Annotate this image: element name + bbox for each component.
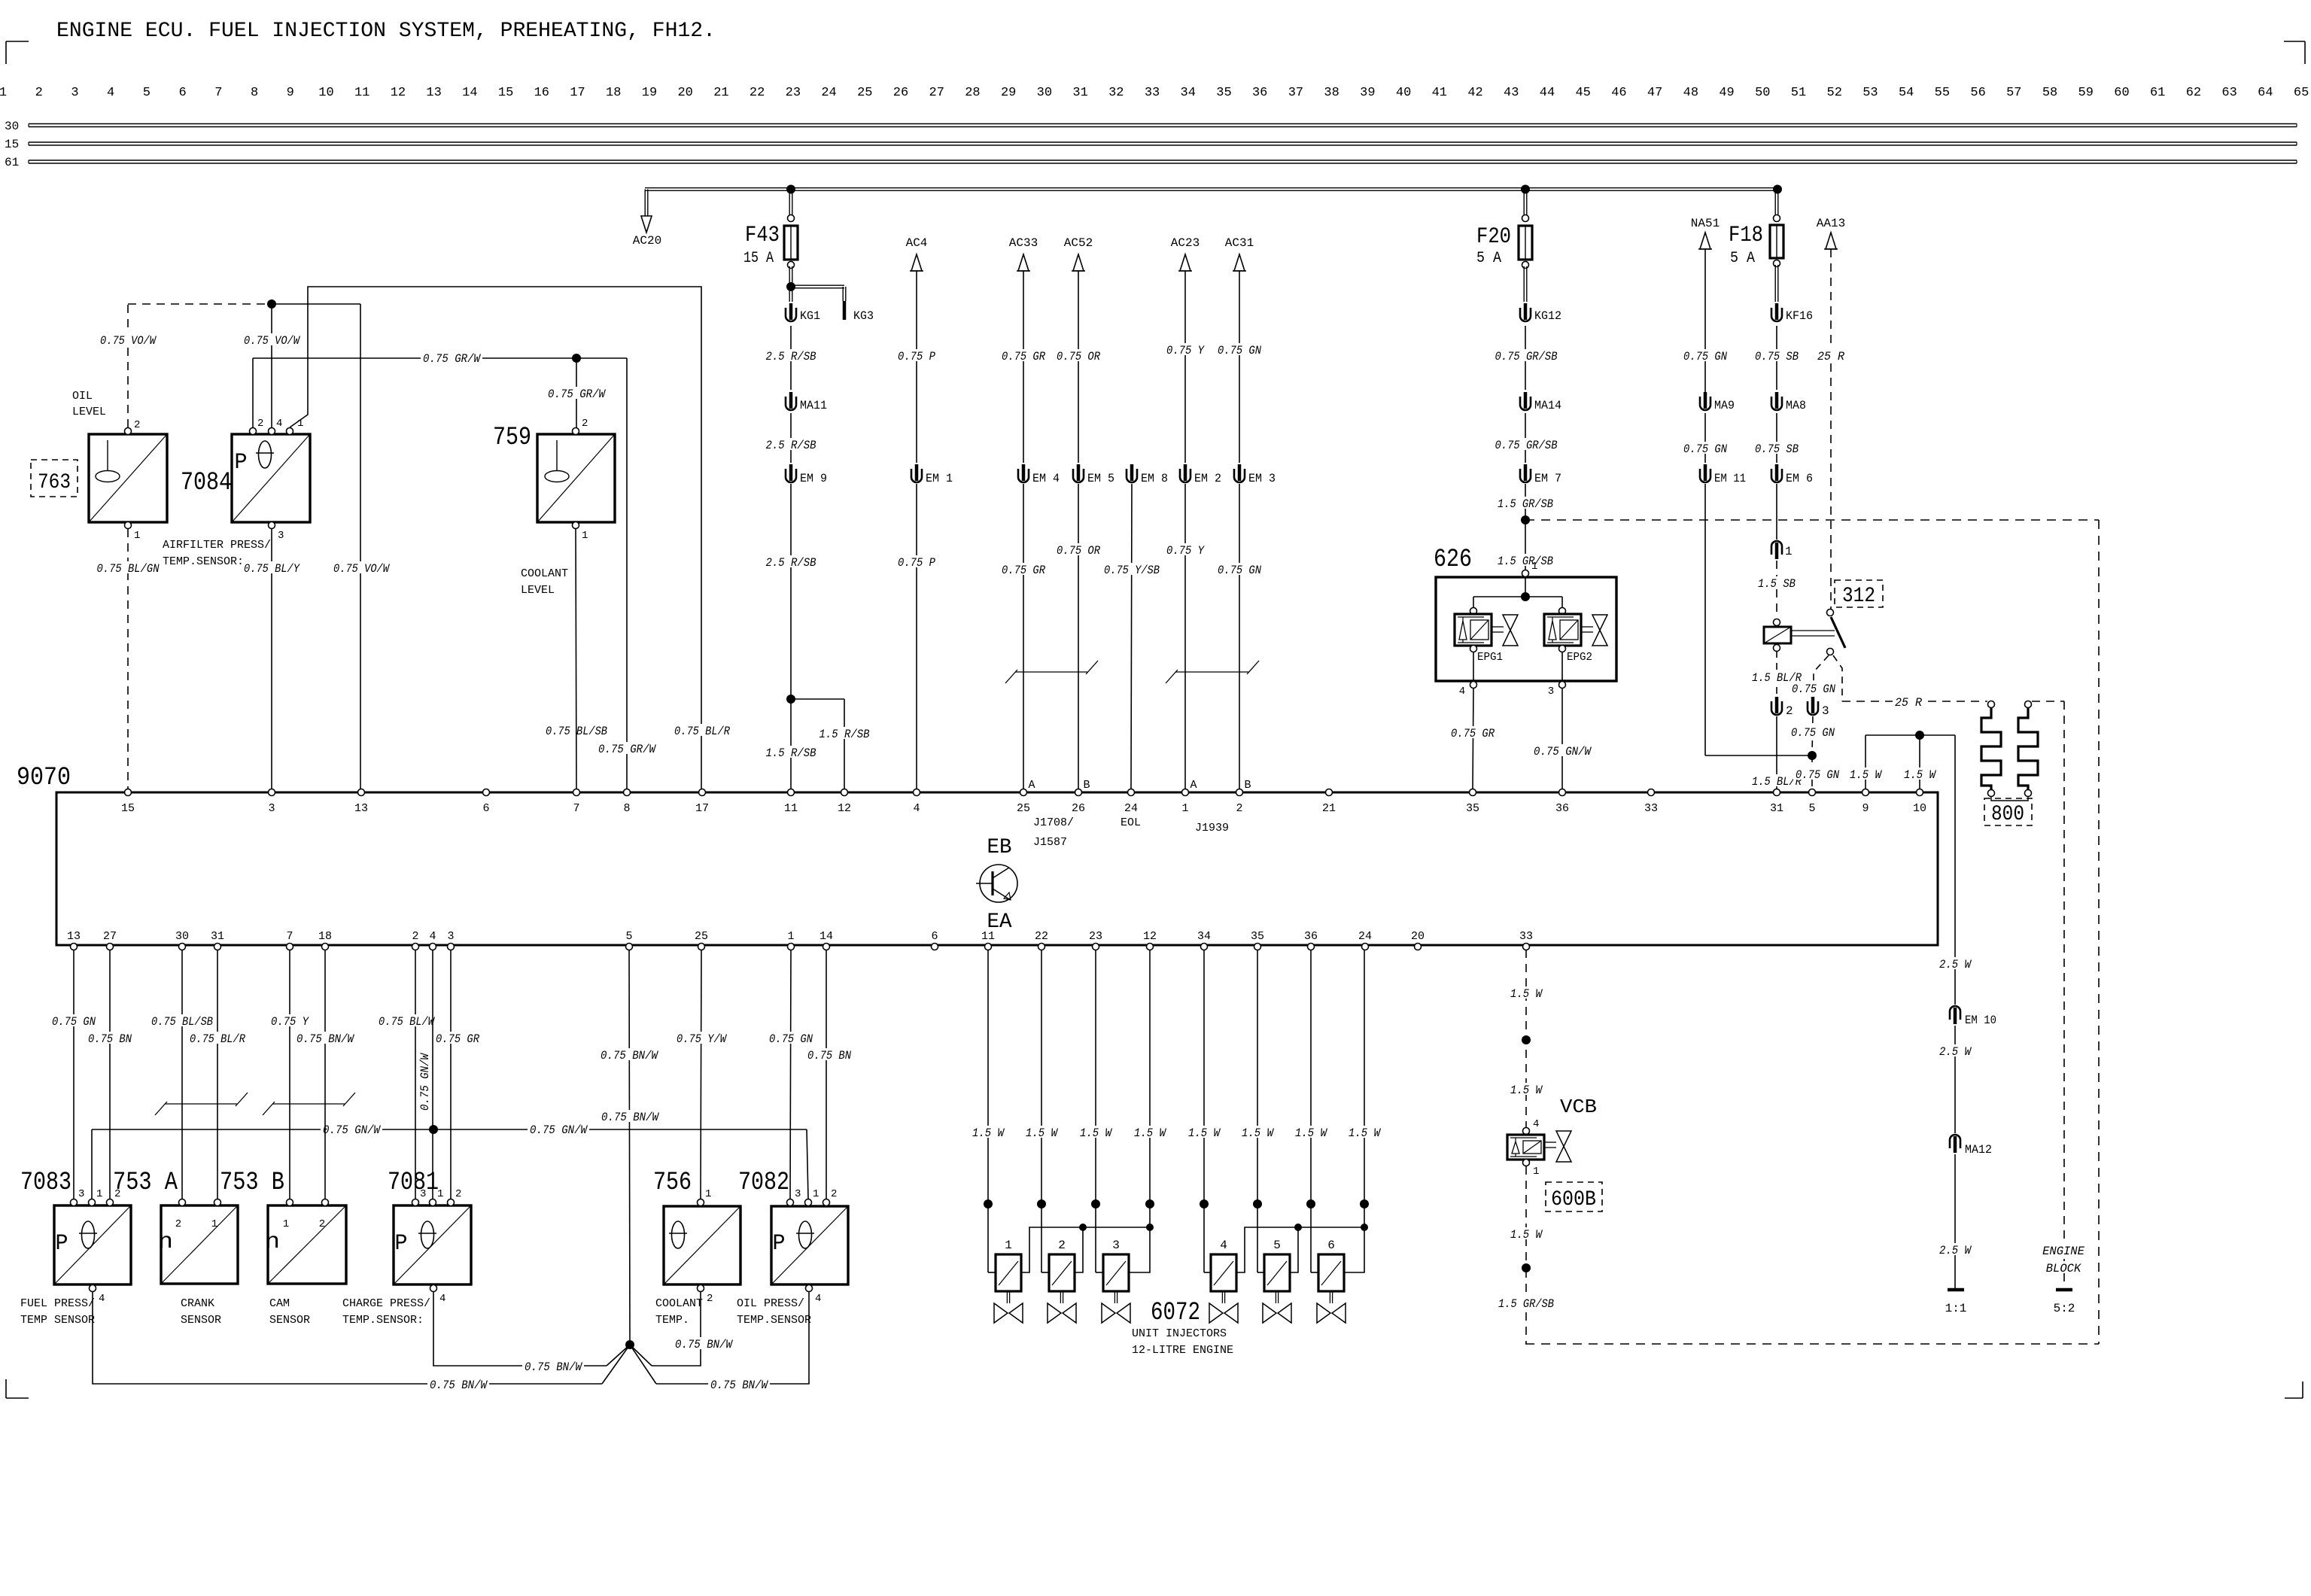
svg-text:SENSOR: SENSOR — [269, 1314, 310, 1327]
svg-text:41: 41 — [1432, 86, 1447, 100]
wire 626 pin3 to pin36 0.75 GN/W — [1561, 688, 1563, 789]
sensor 759 coolant level — [537, 434, 615, 522]
svg-text:753 A: 753 A — [113, 1169, 178, 1197]
node pin5 junction — [1808, 751, 1817, 760]
svg-text:SENSOR: SENSOR — [181, 1314, 221, 1327]
wire pin30 to 753A pin2 0.75 BL/SB — [181, 950, 183, 1199]
wire switch to 25R — [1833, 655, 1842, 701]
connector MA9 — [1700, 392, 1735, 412]
label 0.75 GN — [1681, 442, 1729, 456]
wire connector3 to pin5 0.75 GN — [1812, 716, 1813, 754]
fuse F18 — [1729, 215, 1783, 268]
svg-text:23: 23 — [786, 86, 801, 100]
svg-text:7081: 7081 — [388, 1169, 439, 1197]
svg-text:0.75 GN: 0.75 GN — [1683, 350, 1728, 363]
svg-text:2.5 W: 2.5 W — [1939, 958, 1972, 971]
svg-text:12: 12 — [838, 802, 851, 815]
wire AC31 to EM3 0.75 GN — [1239, 271, 1240, 463]
svg-text:3: 3 — [795, 1188, 801, 1200]
injector 2 — [1048, 1239, 1076, 1323]
svg-text:49: 49 — [1719, 86, 1734, 100]
pin 1 of 763 — [125, 522, 141, 543]
node VO/W — [267, 299, 276, 309]
wire inj6 return — [1345, 1204, 1364, 1272]
wire pin33 to VCB 1.5 W — [1525, 950, 1527, 1128]
label 1.5 W — [1508, 1227, 1544, 1242]
svg-text:0.75 BN/W: 0.75 BN/W — [296, 1032, 355, 1046]
svg-text:1: 1 — [211, 1218, 217, 1230]
svg-text:3: 3 — [78, 1188, 84, 1200]
bus 61 label — [5, 156, 19, 169]
label 1.5 BL/R — [1750, 670, 1804, 685]
label 0.75 OR — [1054, 543, 1102, 558]
wire inj2 feed — [1041, 1204, 1049, 1272]
wire inj2 return — [1075, 1227, 1083, 1272]
ruler numbers 1-65 — [0, 86, 2309, 100]
label AIRFILTER PRESS/TEMP.SENSOR: — [163, 539, 271, 568]
svg-text:13: 13 — [354, 802, 368, 815]
svg-text:4: 4 — [913, 802, 920, 815]
svg-text:J1587: J1587 — [1033, 836, 1067, 849]
label box 763 — [31, 460, 78, 497]
label A (J1708) — [1028, 779, 1035, 792]
svg-text:57: 57 — [2006, 86, 2021, 100]
svg-text:OIL PRESS/: OIL PRESS/ — [737, 1297, 804, 1310]
svg-text:0.75 GR: 0.75 GR — [436, 1032, 480, 1046]
svg-text:60: 60 — [2114, 86, 2129, 100]
svg-text:KG3: KG3 — [853, 309, 874, 323]
wire 1.5 SB to relay coil — [1776, 561, 1777, 616]
svg-text:28: 28 — [965, 86, 980, 100]
wire branch to KG3 — [791, 285, 846, 301]
svg-text:24: 24 — [1358, 930, 1372, 943]
svg-text:3: 3 — [447, 930, 454, 943]
label 0.75 BN — [805, 1048, 853, 1062]
svg-text:4: 4 — [107, 86, 114, 100]
label 0.75 GR/SB — [1493, 438, 1560, 452]
label 0.75 GN — [1789, 725, 1837, 740]
svg-text:1.5 GR/SB: 1.5 GR/SB — [1498, 497, 1553, 511]
wire pin7 to 753B pin1 0.75 Y — [289, 950, 290, 1199]
svg-text:1: 1 — [437, 1188, 443, 1200]
svg-text:31: 31 — [211, 930, 224, 943]
svg-text:3: 3 — [1822, 704, 1829, 718]
label 0.75 GN — [1790, 682, 1838, 696]
wire switch to connector 3 0.75 GN — [1814, 655, 1829, 694]
wire inj5 return — [1291, 1227, 1298, 1272]
6072 label — [1151, 1299, 1200, 1327]
svg-text:8: 8 — [623, 802, 630, 815]
svg-text:3: 3 — [1112, 1239, 1120, 1252]
label 0.75 BN/W — [708, 1378, 770, 1392]
wire EM1 to pin4 0.75 P — [916, 484, 917, 789]
label 0.75 SB — [1753, 349, 1801, 363]
svg-text:COOLANT: COOLANT — [655, 1297, 703, 1310]
pin 2 of 759 — [573, 418, 588, 435]
svg-text:AC31: AC31 — [1225, 236, 1254, 250]
connector EM 2 — [1180, 464, 1221, 485]
corner mark bottom-left — [6, 1379, 29, 1398]
connector EM 9 — [786, 464, 827, 485]
sensor 7081 charge press/temp — [394, 1205, 471, 1284]
ECU bottom pins — [67, 930, 1533, 950]
svg-text:46: 46 — [1611, 86, 1626, 100]
svg-text:53: 53 — [1862, 86, 1878, 100]
wire MA11 to EM9 2.5 R/SB — [790, 413, 792, 463]
label OIL LEVEL — [72, 390, 106, 418]
svg-text:9: 9 — [287, 86, 294, 100]
wire EM10 to MA12 2.5 W — [1954, 1026, 1956, 1133]
svg-text:EM 11: EM 11 — [1714, 472, 1746, 485]
svg-text:0.75 BL/R: 0.75 BL/R — [190, 1032, 246, 1046]
label VCB — [1560, 1096, 1597, 1118]
wire EM2 to pin1 0.75 Y — [1184, 484, 1186, 789]
svg-text:0.75 SB: 0.75 SB — [1755, 350, 1799, 363]
svg-text:22: 22 — [1035, 930, 1048, 943]
759 label — [493, 424, 531, 452]
svg-text:J1939: J1939 — [1195, 822, 1229, 834]
label 1.5 W — [1902, 768, 1938, 782]
bus 61 — [29, 160, 2297, 163]
feed wire (battery) — [645, 188, 1778, 191]
wire coil to connector 2 1.5 BL/R — [1776, 651, 1777, 695]
label B (J1939) — [1244, 779, 1251, 792]
label FUEL PRESS/TEMP SENSOR — [20, 1297, 95, 1327]
label 0.75 GR/W — [546, 387, 607, 401]
label 0.75 BN/W — [598, 1048, 660, 1062]
bus 30 — [29, 124, 2297, 127]
svg-text:61: 61 — [5, 156, 19, 169]
svg-text:n: n — [265, 1230, 280, 1255]
wire F18 to KF16 — [1775, 265, 1778, 302]
pin 1 of 759 — [573, 522, 588, 543]
svg-text:0.75 Y: 0.75 Y — [1166, 544, 1206, 558]
dashed boundary bottom — [1525, 1343, 2099, 1345]
wire F43 to KG1 node — [789, 266, 792, 284]
svg-text:7083: 7083 — [20, 1169, 71, 1197]
svg-text:0.75 VO/W: 0.75 VO/W — [244, 334, 300, 348]
svg-text:7082: 7082 — [738, 1169, 789, 1197]
svg-text:0.75 VO/W: 0.75 VO/W — [333, 562, 390, 576]
label 0.75 GR — [999, 349, 1048, 363]
node branch R/SB — [786, 695, 795, 704]
wire feed to F18 — [1775, 190, 1778, 223]
wire 7083 pin4 to star — [93, 1292, 630, 1384]
svg-text:45: 45 — [1575, 86, 1590, 100]
svg-text:2.5 W: 2.5 W — [1939, 1244, 1972, 1257]
svg-text:1.5 W: 1.5 W — [972, 1126, 1005, 1140]
label 0.75 SB — [1753, 442, 1801, 456]
7083 label — [20, 1169, 71, 1197]
svg-text:25 R: 25 R — [1895, 696, 1923, 710]
label UNIT INJECTORS 12-LITRE ENGINE — [1132, 1327, 1233, 1357]
svg-text:0.75 GN: 0.75 GN — [1796, 768, 1840, 782]
svg-text:F20: F20 — [1476, 224, 1511, 250]
svg-text:7: 7 — [573, 802, 579, 815]
svg-text:0.75 GR: 0.75 GR — [1451, 727, 1495, 740]
label J1939 — [1195, 822, 1229, 834]
label 0.75 GR — [999, 563, 1048, 577]
svg-text:1.5 SB: 1.5 SB — [1758, 577, 1796, 591]
pin 4 of 7081 — [430, 1285, 446, 1306]
svg-text:7: 7 — [286, 930, 293, 943]
svg-text:1.5 W: 1.5 W — [1188, 1126, 1221, 1140]
svg-text:UNIT INJECTORS: UNIT INJECTORS — [1132, 1327, 1227, 1340]
node dashed-boundary — [1521, 515, 1530, 524]
svg-text:ENGINE ECU. FUEL INJECTION SYS: ENGINE ECU. FUEL INJECTION SYSTEM, PREHE… — [56, 20, 716, 43]
relay 312 coil — [1764, 619, 1791, 652]
7084 label — [181, 469, 232, 497]
svg-text:AC20: AC20 — [633, 234, 661, 248]
svg-text:54: 54 — [1899, 86, 1914, 100]
svg-text:4: 4 — [276, 418, 282, 430]
wire EPG1 to pin4 — [1473, 652, 1474, 681]
connector EM 4 — [1018, 464, 1060, 485]
wire F20 to KG12 — [1524, 266, 1527, 302]
svg-text:5:2: 5:2 — [2054, 1302, 2075, 1315]
svg-text:0.75 BN/W: 0.75 BN/W — [601, 1111, 660, 1124]
injector 3 — [1102, 1239, 1130, 1323]
svg-text:2.5 R/SB: 2.5 R/SB — [766, 439, 816, 452]
svg-text:4: 4 — [429, 930, 436, 943]
ECU 9070 box — [56, 792, 1938, 945]
wire pin18 to 753B pin2 0.75 BN/W — [324, 950, 326, 1199]
svg-text:9: 9 — [1862, 802, 1869, 815]
svg-text:MA8: MA8 — [1786, 399, 1806, 412]
wire node to pin5 — [1811, 755, 1813, 789]
svg-text:6: 6 — [1327, 1239, 1335, 1252]
connector MA12 — [1950, 1135, 1992, 1157]
svg-text:31: 31 — [1072, 86, 1087, 100]
svg-text:26: 26 — [893, 86, 908, 100]
svg-text:2: 2 — [1236, 802, 1242, 815]
svg-text:34: 34 — [1181, 86, 1196, 100]
pin 1 of 756 — [698, 1188, 712, 1206]
svg-text:756: 756 — [653, 1169, 692, 1197]
pin 2 of 7084 — [250, 418, 264, 435]
fuse F20 — [1476, 215, 1532, 269]
svg-text:EPG2: EPG2 — [1567, 651, 1592, 664]
svg-text:12: 12 — [1143, 930, 1157, 943]
label 1.5 GR/SB — [1495, 497, 1555, 511]
wire 7081 pin4 to star — [433, 1292, 630, 1366]
node below F43 — [786, 282, 795, 291]
svg-text:1.5 W: 1.5 W — [1349, 1126, 1382, 1140]
svg-text:J1708/: J1708/ — [1033, 816, 1074, 829]
svg-text:20: 20 — [677, 86, 692, 100]
7081 label — [388, 1169, 439, 1197]
wire branch to pin12 — [791, 699, 844, 789]
svg-text:0.75 BL/Y: 0.75 BL/Y — [244, 562, 300, 576]
wire pin3 to 7081 pin2 0.75 GR — [450, 950, 452, 1199]
svg-text:2.5 W: 2.5 W — [1939, 1045, 1972, 1059]
svg-text:21: 21 — [713, 86, 728, 100]
label 0.75 P — [896, 349, 938, 363]
svg-text:1.5 W: 1.5 W — [1242, 1126, 1275, 1140]
label ENGINE BLOCK — [2040, 1244, 2087, 1275]
svg-text:0.75 GN/W: 0.75 GN/W — [1534, 745, 1592, 758]
svg-text:1.5 W: 1.5 W — [1510, 987, 1543, 1001]
svg-text:1: 1 — [96, 1188, 102, 1200]
label 1.5 SB — [1756, 576, 1798, 591]
wire 7084 pin3 to pin3 — [271, 529, 272, 789]
svg-text:2.5 R/SB: 2.5 R/SB — [766, 556, 816, 570]
svg-text:11: 11 — [354, 86, 369, 100]
svg-text:2: 2 — [831, 1188, 837, 1200]
svg-text:TEMP.SENSOR:: TEMP.SENSOR: — [163, 555, 244, 568]
svg-text:0.75 BN/W: 0.75 BN/W — [430, 1379, 488, 1392]
svg-text:0.75 BN/W: 0.75 BN/W — [525, 1360, 583, 1374]
pin 2 of 753B — [319, 1199, 329, 1231]
label 2.5 W — [1937, 957, 1973, 971]
transistor EB/EA — [976, 836, 1017, 934]
svg-text:4: 4 — [1459, 686, 1465, 698]
label 0.75 Y/W — [674, 1032, 728, 1046]
svg-text:3: 3 — [268, 802, 275, 815]
626 label — [1434, 546, 1472, 574]
svg-text:0.75 GR/SB: 0.75 GR/SB — [1495, 350, 1558, 363]
wire 763 pin2 dashed up — [128, 304, 267, 427]
wire KG12 to MA14 0.75 GR/SB — [1525, 326, 1526, 390]
svg-text:19: 19 — [642, 86, 657, 100]
wire MA9 to EM11 0.75 GN — [1704, 413, 1706, 463]
svg-text:0.75 GR/SB: 0.75 GR/SB — [1495, 439, 1558, 452]
ground 1:1 — [1945, 1290, 1967, 1315]
svg-text:17: 17 — [695, 802, 709, 815]
svg-text:EM 1: EM 1 — [926, 472, 953, 485]
wire 25 R dashed to glow plug — [1842, 701, 1987, 702]
connector MA14 — [1520, 392, 1561, 412]
label 0.75 BL/GN — [95, 561, 162, 576]
bus 15 label — [5, 138, 19, 151]
node 626 internal — [1521, 592, 1530, 601]
label CRANK SENSOR — [181, 1297, 221, 1327]
wire VO/W node to pin13 — [272, 304, 360, 789]
wire EM4 to pin25 0.75 GR — [1023, 484, 1024, 789]
svg-text:0.75 Y: 0.75 Y — [1166, 344, 1206, 357]
svg-text:0.75 P: 0.75 P — [898, 556, 936, 570]
svg-text:15 A: 15 A — [743, 250, 774, 267]
label 0.75 GR — [433, 1032, 482, 1046]
label 25 R — [1893, 695, 1924, 710]
svg-text:2: 2 — [319, 1218, 325, 1230]
svg-text:32: 32 — [1108, 86, 1124, 100]
wire NA51 to MA9 0.75 GN — [1704, 249, 1706, 392]
svg-text:B: B — [1244, 779, 1251, 792]
injector 4 — [1209, 1239, 1238, 1323]
label 2.5 W — [1937, 1243, 1973, 1257]
svg-text:4: 4 — [1533, 1118, 1539, 1130]
svg-text:0.75 OR: 0.75 OR — [1057, 544, 1101, 558]
svg-text:29: 29 — [1001, 86, 1016, 100]
label 0.75 Y — [1164, 343, 1206, 357]
svg-text:0.75 GR/W: 0.75 GR/W — [598, 743, 657, 756]
svg-text:3: 3 — [71, 86, 78, 100]
label 0.75 Y — [269, 1014, 311, 1029]
svg-text:25: 25 — [1017, 802, 1030, 815]
svg-text:0.75 GN: 0.75 GN — [1683, 442, 1728, 456]
svg-text:64: 64 — [2258, 86, 2273, 100]
node inj5 return — [1294, 1224, 1302, 1231]
svg-text:1.5 GR/SB: 1.5 GR/SB — [1498, 1297, 1554, 1311]
svg-text:BLOCK: BLOCK — [2046, 1262, 2081, 1275]
svg-text:n: n — [158, 1230, 173, 1255]
wire feed to F20 — [1524, 190, 1527, 223]
svg-text:1: 1 — [1531, 561, 1537, 573]
label 0.75 BN/W — [599, 1110, 661, 1124]
svg-text:22: 22 — [750, 86, 765, 100]
svg-text:F18: F18 — [1729, 223, 1763, 248]
label 0.75 P — [896, 555, 938, 570]
sensor 753 B cam — [265, 1205, 346, 1284]
svg-text:42: 42 — [1467, 86, 1482, 100]
wire AC23 to EM2 0.75 Y — [1184, 271, 1186, 463]
label 1.5 R/SB — [817, 727, 872, 741]
svg-text:15: 15 — [498, 86, 513, 100]
twisted pair marker J1708 — [1005, 661, 1098, 683]
label 0.75 GN — [767, 1032, 815, 1046]
corner mark top-right — [2284, 41, 2305, 64]
svg-text:5: 5 — [1273, 1239, 1281, 1252]
svg-text:14: 14 — [819, 930, 833, 943]
label 0.75 BL/W — [376, 1014, 436, 1029]
svg-text:TEMP SENSOR: TEMP SENSOR — [20, 1314, 95, 1327]
pin 3 of 626 — [1548, 682, 1566, 698]
connector EM 6 — [1771, 464, 1813, 485]
svg-text:40: 40 — [1396, 86, 1411, 100]
svg-text:A: A — [1190, 779, 1197, 792]
svg-text:37: 37 — [1288, 86, 1303, 100]
svg-text:30: 30 — [5, 120, 19, 133]
svg-text:0.75 VO/W: 0.75 VO/W — [100, 334, 157, 348]
valve EPG2 — [1544, 608, 1607, 664]
svg-text:800: 800 — [1991, 803, 2024, 826]
label box 312 — [1835, 580, 1883, 608]
svg-text:0.75 GN: 0.75 GN — [52, 1015, 96, 1029]
pin 1 of 7081 — [430, 1188, 444, 1206]
svg-text:626: 626 — [1434, 546, 1472, 574]
wire inj3 feed — [1096, 1204, 1103, 1272]
svg-text:1.5 GR/SB: 1.5 GR/SB — [1498, 555, 1553, 568]
svg-text:2: 2 — [35, 86, 43, 100]
label 1.5 GR/SB — [1496, 1297, 1556, 1311]
pin 2 of 7083 — [107, 1188, 121, 1206]
svg-text:36: 36 — [1252, 86, 1267, 100]
sensor 756 coolant temp — [664, 1206, 740, 1284]
svg-text:0.75 Y/W: 0.75 Y/W — [677, 1032, 727, 1046]
connector EM 5 — [1073, 464, 1114, 485]
sensor 753 A crank — [158, 1205, 238, 1284]
label 2.5 R/SB — [763, 349, 818, 363]
svg-text:0.75 GN: 0.75 GN — [769, 1032, 813, 1046]
svg-text:52: 52 — [1827, 86, 1842, 100]
label 0.75 GN — [1681, 349, 1729, 363]
svg-text:7: 7 — [214, 86, 222, 100]
svg-text:0.75 BL/SB: 0.75 BL/SB — [151, 1015, 213, 1029]
wire EM11 to node pin5 — [1705, 484, 1812, 755]
svg-text:62: 62 — [2186, 86, 2201, 100]
svg-text:18: 18 — [318, 930, 332, 943]
label CHARGE PRESS/TEMP.SENSOR: — [342, 1297, 430, 1327]
wire pin25 to 756 pin1 0.75 Y/W — [701, 950, 701, 1199]
connector EM 1 — [911, 464, 953, 485]
arrow AC4 — [906, 236, 928, 271]
svg-text:5 A: 5 A — [1730, 250, 1755, 267]
connector EM 11 — [1700, 464, 1746, 485]
svg-text:2: 2 — [582, 418, 588, 430]
connector 3 (engine harness) — [1808, 697, 1829, 718]
svg-text:0.75 Y/SB: 0.75 Y/SB — [1104, 564, 1160, 577]
